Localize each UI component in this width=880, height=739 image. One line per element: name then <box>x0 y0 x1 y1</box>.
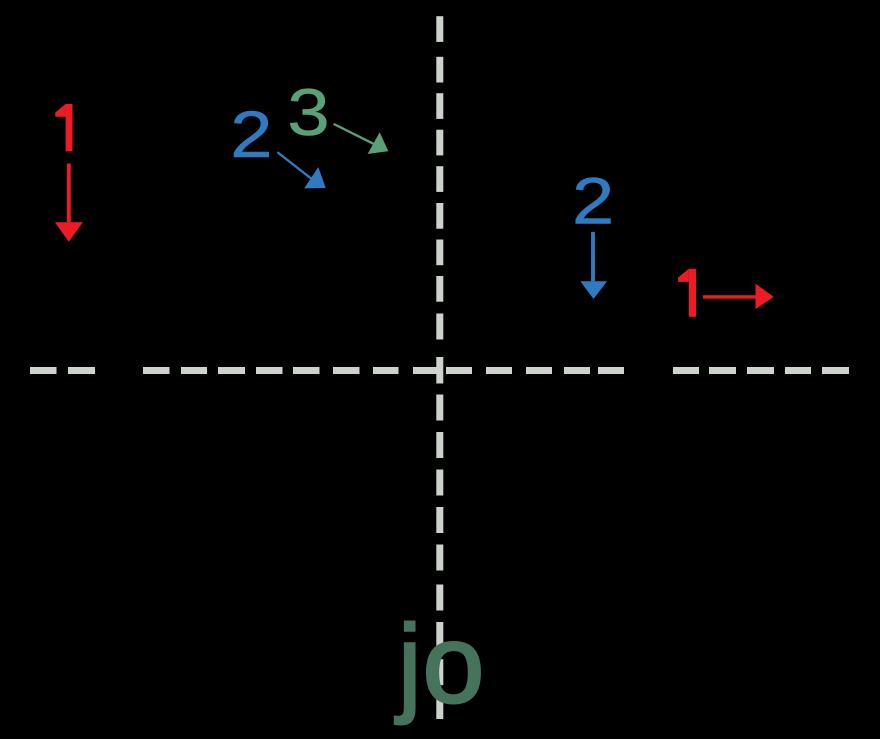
vertical axis (jw axis, dashed) <box>436 16 443 719</box>
label 1 (red, right) : flag <box>678 269 689 282</box>
svg-text:o: o <box>423 603 484 726</box>
label 2 (blue, upper left) <box>230 98 272 171</box>
label 1 (red, upper left) : flag <box>55 104 65 117</box>
arrow 2 (blue, down-right) : shaft <box>277 152 311 179</box>
arrow 1r (red, pointing right) : shaft <box>703 295 756 298</box>
arrow 1r (red, pointing right) : head <box>756 284 774 310</box>
svg-text:j: j <box>395 603 422 726</box>
label 1 (red, right) : stem <box>689 269 696 317</box>
label 2 (blue, right of axis) <box>572 165 614 238</box>
label 3 (green) <box>287 77 329 150</box>
arrow 2 (blue, down-right) : head <box>304 167 326 188</box>
arrow 3 (green, down-right) : shaft <box>334 124 374 144</box>
label 1 (red, upper left) : stem <box>66 104 73 151</box>
arrow 3 (green, down-right) : head <box>368 132 389 154</box>
svg-text:2: 2 <box>230 98 272 171</box>
arrow 1 (red, pointing down) : shaft <box>67 164 71 223</box>
arrow 1 (red, pointing down) : head <box>55 222 83 242</box>
svg-text:2: 2 <box>572 165 614 238</box>
horizontal axis (sigma axis, dashed) <box>30 367 849 374</box>
svg-text:3: 3 <box>287 77 329 150</box>
arrow 2r (blue, pointing down) : head <box>580 281 607 299</box>
arrow 2r (blue, pointing down) : shaft <box>591 232 595 281</box>
